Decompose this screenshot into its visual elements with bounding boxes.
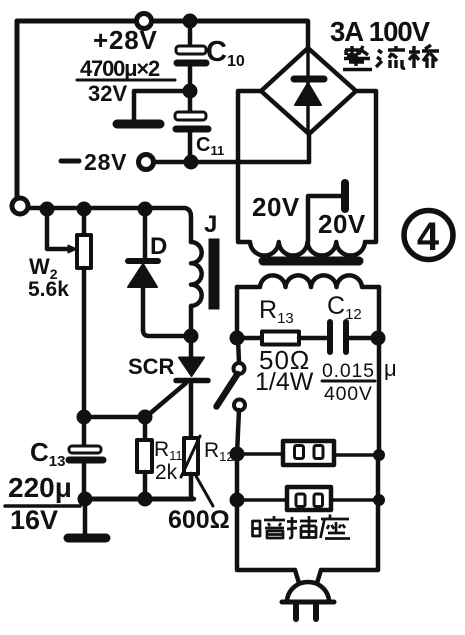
ground (lower) [68, 499, 106, 538]
svg-text:C12: C12 [327, 292, 362, 323]
svg-text:4700μ×2: 4700μ×2 [80, 56, 160, 81]
wire primary left vertical [235, 287, 240, 338]
potentiometer W2 [47, 209, 91, 417]
transformer primary winding [237, 275, 379, 287]
node junction socket1 right [374, 450, 385, 461]
transformer secondary winding [238, 242, 376, 256]
svg-text:R12: R12 [204, 439, 234, 464]
node junction R13 left [230, 331, 244, 345]
transformer core [263, 257, 359, 266]
resistor R11 [137, 417, 152, 499]
char zheng [343, 46, 372, 70]
svg-text:R11: R11 [154, 438, 183, 463]
char cha [287, 516, 317, 538]
label rectifier bridge (Chinese) 整流桥 [343, 45, 439, 70]
node junction R11 top [138, 410, 152, 424]
node junction R11 bottom [138, 492, 152, 506]
label 4700ux2 [77, 56, 175, 106]
wire bridge right AC lead [356, 91, 376, 241]
relay coil J [191, 242, 202, 331]
rheostat R12 [181, 436, 200, 499]
wire C10 bottom lead [188, 67, 193, 91]
svg-text:4: 4 [417, 215, 440, 259]
wire bridge minus lead [307, 134, 312, 162]
diode D [128, 209, 186, 336]
thyristor SCR [147, 336, 208, 438]
wire top +28V rail [17, 19, 307, 24]
plug [282, 570, 334, 619]
svg-text:400V: 400V [324, 383, 373, 405]
capacitor C11 [175, 91, 208, 129]
wire bridge left AC lead [238, 91, 261, 240]
node junction ground [78, 492, 92, 506]
node junction C13 top [77, 410, 91, 424]
svg-text:D: D [150, 233, 167, 260]
char an [253, 516, 286, 538]
wire right vertical to plug [321, 456, 378, 570]
wire C11 bottom lead [188, 133, 193, 162]
node junction SCR anode [184, 329, 198, 343]
node junction top of C10 [183, 14, 197, 28]
node junction on -28V rail [184, 155, 198, 169]
wire to switch [238, 338, 239, 363]
wire center tap [308, 196, 342, 242]
resistor R13 [243, 332, 327, 345]
svg-text:20V: 20V [318, 209, 366, 239]
svg-text:1/4W: 1/4W [255, 368, 314, 396]
node junction D top [138, 202, 152, 216]
wire left vertical to plug [237, 454, 295, 570]
socket 2 [237, 487, 378, 510]
socket 1 [237, 441, 378, 465]
capacitor C10 [176, 46, 206, 63]
wire C10 top lead [188, 21, 193, 47]
wire gate rail [81, 415, 147, 420]
switch contact bottom [234, 400, 245, 411]
bridge rectifier [261, 21, 356, 134]
node -28V terminal [139, 155, 154, 170]
svg-text:2k: 2k [155, 461, 178, 484]
char qiao [409, 45, 439, 68]
label 220u/16V [5, 472, 80, 535]
wire -28V rail [154, 160, 309, 165]
node junction socket1 left [230, 447, 244, 461]
node left terminal [12, 198, 28, 214]
char zuo [321, 515, 351, 539]
label 600ohm with pointer [168, 476, 230, 534]
svg-text:C11: C11 [196, 134, 224, 158]
node junction between C10 and C11 [183, 84, 197, 98]
node junction socket2 right [374, 495, 385, 506]
node junction W2 top [77, 202, 91, 216]
svg-text:C13: C13 [30, 437, 65, 470]
wire bottom rail [83, 497, 193, 502]
label 0.015/400V u [322, 356, 397, 405]
center tap terminal bar [341, 183, 349, 209]
svg-text:SCR: SCR [128, 354, 175, 379]
svg-text:28V: 28V [84, 149, 127, 175]
char liu [376, 46, 405, 68]
wire switch to sockets [237, 410, 239, 454]
svg-text:C10: C10 [206, 36, 245, 70]
svg-text:J: J [204, 211, 217, 238]
svg-text:μ: μ [384, 356, 397, 381]
circled number 4 [404, 211, 453, 260]
svg-text:+28V: +28V [93, 25, 158, 55]
svg-text:R13: R13 [259, 296, 294, 327]
svg-text:0.015: 0.015 [322, 360, 375, 382]
svg-text:5.6k: 5.6k [28, 278, 69, 301]
relay core bar [209, 239, 219, 309]
node +28V terminal [137, 14, 152, 29]
node junction socket2 left [230, 493, 244, 507]
wire control rail [28, 208, 191, 242]
capacitor C13 [69, 417, 103, 499]
svg-text:220μ: 220μ [8, 472, 72, 503]
capacitor C12 [330, 322, 372, 352]
svg-text:600Ω: 600Ω [168, 506, 230, 534]
svg-text:3A 100V: 3A 100V [330, 16, 431, 47]
wire left vertical from top rail [15, 21, 20, 198]
node junction C12 right [371, 331, 385, 345]
switch blade [217, 374, 238, 407]
wire right vertical mains [377, 287, 382, 455]
node junction W2 wiper branch [40, 202, 54, 216]
svg-text:32V: 32V [88, 81, 127, 106]
svg-text:20V: 20V [252, 192, 300, 222]
ground (upper) [117, 120, 160, 129]
wire ground stub [134, 91, 190, 119]
switch contact top [234, 363, 245, 374]
svg-text:16V: 16V [10, 505, 58, 535]
label -28V [61, 159, 79, 164]
label concealed socket (Chinese) 暗插座 [253, 515, 351, 539]
